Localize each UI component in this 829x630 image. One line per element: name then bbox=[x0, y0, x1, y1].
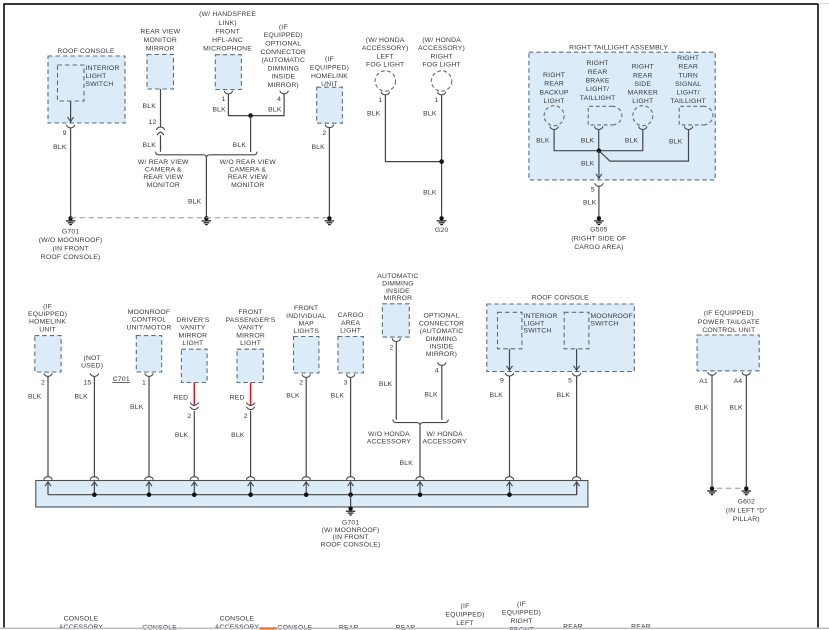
svg-text:REAR: REAR bbox=[588, 69, 608, 76]
svg-text:LINK): LINK) bbox=[218, 20, 236, 27]
svg-text:OPTIONAL: OPTIONAL bbox=[265, 41, 301, 48]
optional connector (middle) label bbox=[419, 313, 464, 359]
orange highlight mark bbox=[260, 627, 277, 629]
svg-text:BLK: BLK bbox=[188, 198, 202, 205]
svg-text:USED): USED) bbox=[81, 363, 103, 370]
svg-text:2: 2 bbox=[322, 130, 326, 137]
svg-text:(IN FRONT: (IN FRONT bbox=[53, 245, 89, 252]
arrow interior switch at box edge bbox=[507, 366, 513, 370]
svg-text:CONSOLE: CONSOLE bbox=[277, 625, 312, 630]
wire mirror lower bbox=[160, 135, 162, 152]
svg-text:(IF: (IF bbox=[43, 303, 52, 310]
svg-text:HFL-ANC: HFL-ANC bbox=[212, 37, 243, 44]
svg-text:LIGHT: LIGHT bbox=[524, 320, 545, 327]
svg-text:G20: G20 bbox=[435, 227, 448, 234]
svg-text:MIRROR: MIRROR bbox=[384, 295, 413, 302]
svg-text:EQUIPPED): EQUIPPED) bbox=[310, 65, 349, 72]
brace rear view monitor options bbox=[156, 152, 257, 158]
svg-text:AUTOMATIC: AUTOMATIC bbox=[377, 273, 418, 280]
right rear side marker light label bbox=[628, 64, 658, 105]
wire A4 to G602 bbox=[745, 376, 747, 487]
svg-text:BACKUP: BACKUP bbox=[540, 89, 569, 96]
svg-text:BRAKE: BRAKE bbox=[586, 77, 610, 84]
moonroof control unit label bbox=[127, 309, 172, 331]
wire pin 9 to G701 bbox=[70, 128, 72, 216]
label w/ honda accessory bbox=[423, 431, 468, 446]
svg-text:RIGHT: RIGHT bbox=[543, 72, 565, 79]
right rear backup light label bbox=[540, 72, 569, 105]
roof console (w/o moonroof) box bbox=[48, 48, 125, 123]
dashed link between G602 grounds bbox=[717, 487, 742, 489]
svg-text:UNIT/MOTOR: UNIT/MOTOR bbox=[127, 324, 172, 331]
svg-text:DIMMING: DIMMING bbox=[267, 65, 299, 72]
svg-text:(W/ HONDA: (W/ HONDA bbox=[422, 37, 461, 44]
label w/o honda accessory bbox=[367, 431, 412, 446]
svg-text:BLK: BLK bbox=[625, 137, 639, 144]
cut-off label if equipped left bbox=[445, 603, 484, 627]
wire right fog light to G20 bbox=[441, 95, 443, 216]
svg-text:BLK: BLK bbox=[490, 392, 504, 399]
svg-text:2: 2 bbox=[187, 413, 191, 420]
svg-text:1: 1 bbox=[221, 96, 225, 103]
wire auto dimming mirror to brace bbox=[395, 342, 397, 420]
svg-text:12: 12 bbox=[149, 119, 157, 126]
svg-text:DIMMING: DIMMING bbox=[382, 280, 414, 287]
ground G701 (w/ moonroof) bbox=[321, 506, 381, 548]
moonroof control unit box bbox=[136, 336, 161, 372]
svg-text:INDIVIDUAL: INDIVIDUAL bbox=[286, 313, 326, 320]
svg-text:CONNECTOR: CONNECTOR bbox=[261, 49, 306, 56]
ground bus bar bbox=[36, 481, 588, 508]
svg-text:REAR VIEW: REAR VIEW bbox=[143, 174, 183, 181]
right rear side marker bulb bbox=[633, 106, 653, 126]
page bottom edge line bbox=[0, 627, 829, 629]
svg-text:2: 2 bbox=[244, 413, 248, 420]
svg-text:SWITCH: SWITCH bbox=[591, 320, 619, 327]
wire brace to mid ground bbox=[205, 158, 207, 216]
connector backup light bbox=[550, 126, 558, 129]
svg-text:REAR: REAR bbox=[396, 625, 416, 630]
bus entry connector/junction (moonroof switch) bbox=[573, 477, 581, 495]
cut-off label console 2 bbox=[277, 625, 312, 630]
wire driver's vanity to bus bbox=[193, 411, 195, 477]
cut-off label if equipped right bbox=[502, 601, 541, 630]
svg-text:W/O HONDA: W/O HONDA bbox=[368, 431, 410, 438]
bus entry connector/junction (not-used) bbox=[90, 477, 98, 497]
svg-text:1: 1 bbox=[435, 97, 439, 104]
cut-off label console accessory 1 bbox=[59, 616, 104, 630]
svg-text:(AUTOMATIC: (AUTOMATIC bbox=[261, 57, 305, 64]
arrow into roof console box edge bbox=[68, 117, 74, 121]
svg-text:LEFT: LEFT bbox=[456, 620, 473, 627]
svg-text:EQUIPPED): EQUIPPED) bbox=[28, 311, 67, 318]
svg-text:3: 3 bbox=[344, 379, 348, 386]
moonroof switch label bbox=[591, 313, 633, 327]
wire passenger's vanity to bus bbox=[250, 411, 252, 477]
cargo area light label bbox=[338, 312, 364, 334]
svg-text:RIGHT TAILLIGHT ASSEMBLY: RIGHT TAILLIGHT ASSEMBLY bbox=[569, 45, 668, 52]
svg-text:INSIDE: INSIDE bbox=[271, 74, 295, 81]
svg-text:BLK: BLK bbox=[583, 200, 597, 207]
svg-text:FRONT: FRONT bbox=[215, 28, 239, 35]
connector pin 1 left fog light bbox=[381, 92, 389, 95]
connector turn signal light bbox=[684, 126, 692, 129]
in-line connector (passenger's vanity) bbox=[246, 403, 255, 410]
svg-text:(IN FRONT: (IN FRONT bbox=[333, 534, 369, 541]
cut-off label console 1 bbox=[142, 625, 177, 630]
svg-text:CONTROL UNIT: CONTROL UNIT bbox=[702, 327, 755, 334]
wire interior light switch (middle) to pin 9 bbox=[509, 349, 511, 372]
svg-text:MOONROOF: MOONROOF bbox=[591, 313, 633, 320]
wire homelink to ground bbox=[328, 128, 330, 216]
svg-text:(IF: (IF bbox=[517, 601, 526, 608]
connector pin 2 auto dimming mirror bbox=[392, 338, 400, 341]
svg-text:SWITCH: SWITCH bbox=[86, 81, 114, 88]
svg-text:4: 4 bbox=[277, 96, 281, 103]
svg-text:BLK: BLK bbox=[143, 103, 157, 110]
svg-text:CONSOLE: CONSOLE bbox=[64, 616, 99, 623]
homelink unit (top) box bbox=[317, 87, 343, 123]
bus entry connector/junction (driver vanity) bbox=[190, 477, 198, 497]
wire bus to G701 (w/ moonroof) bbox=[350, 495, 352, 507]
wire side marker to junction bbox=[600, 129, 643, 150]
bus entry connector/junction (passenger vanity) bbox=[247, 477, 255, 497]
svg-text:BLK: BLK bbox=[143, 142, 157, 149]
connector pin 1 microphone bbox=[224, 91, 232, 94]
svg-text:MONITOR: MONITOR bbox=[231, 182, 264, 189]
arrow moonroof switch at box edge bbox=[574, 366, 580, 370]
svg-text:REAR: REAR bbox=[339, 625, 359, 630]
svg-text:BLK: BLK bbox=[53, 144, 67, 151]
svg-text:CONTROL: CONTROL bbox=[132, 317, 167, 324]
svg-text:MIRROR: MIRROR bbox=[236, 332, 265, 339]
connector pin 1 right fog light bbox=[438, 92, 446, 95]
svg-text:(IF EQUIPPED): (IF EQUIPPED) bbox=[704, 310, 754, 317]
svg-text:PILLAR): PILLAR) bbox=[733, 516, 760, 523]
svg-text:(RIGHT SIDE OF: (RIGHT SIDE OF bbox=[571, 235, 626, 242]
front HFL-ANC microphone label bbox=[199, 11, 256, 52]
right fog light label bbox=[418, 37, 465, 68]
svg-text:RED: RED bbox=[173, 395, 188, 402]
svg-text:ROOF CONSOLE: ROOF CONSOLE bbox=[57, 48, 114, 55]
svg-text:RED: RED bbox=[230, 395, 245, 402]
homelink unit (middle) box bbox=[35, 336, 61, 372]
cut-off label rear 2 bbox=[396, 625, 416, 630]
svg-text:1: 1 bbox=[378, 97, 382, 104]
svg-text:MARKER: MARKER bbox=[628, 90, 658, 97]
svg-text:(W/ HONDA: (W/ HONDA bbox=[366, 37, 405, 44]
svg-text:CONNECTOR: CONNECTOR bbox=[419, 320, 464, 327]
svg-text:INTERIOR: INTERIOR bbox=[524, 313, 558, 320]
connector pin A4 bbox=[742, 372, 750, 375]
svg-text:A4: A4 bbox=[734, 378, 743, 385]
svg-text:LEFT: LEFT bbox=[376, 53, 393, 60]
roof console (w/ moonroof) box bbox=[487, 295, 635, 372]
svg-text:REAR: REAR bbox=[633, 72, 653, 79]
svg-text:CAMERA &: CAMERA & bbox=[229, 167, 266, 174]
ground G602 left bbox=[707, 486, 716, 495]
interior light switch box bbox=[58, 65, 85, 101]
svg-text:MONITOR: MONITOR bbox=[147, 182, 180, 189]
svg-text:FOG LIGHT: FOG LIGHT bbox=[366, 61, 404, 68]
ground G701 (w/o moonroof) bbox=[39, 216, 103, 261]
wire junction down to brace bbox=[250, 116, 252, 152]
svg-text:BLK: BLK bbox=[400, 460, 414, 467]
wire moonroof control to bus bbox=[148, 377, 150, 477]
svg-text:MIRROR: MIRROR bbox=[146, 45, 175, 52]
svg-text:5: 5 bbox=[568, 378, 572, 385]
svg-text:LIGHT: LIGHT bbox=[240, 340, 261, 347]
svg-text:ACCESSORY: ACCESSORY bbox=[423, 439, 468, 446]
svg-text:REAR: REAR bbox=[544, 81, 564, 88]
connector pin 4 optional (middle) bbox=[438, 362, 446, 365]
connector pin 2 map lights bbox=[302, 374, 310, 377]
svg-text:MONITOR: MONITOR bbox=[144, 37, 177, 44]
svg-text:UNIT: UNIT bbox=[39, 326, 56, 333]
svg-text:MOONROOF: MOONROOF bbox=[128, 309, 170, 316]
svg-text:BLK: BLK bbox=[233, 142, 247, 149]
wire homelink middle to bus bbox=[47, 377, 49, 477]
svg-text:SWITCH: SWITCH bbox=[524, 328, 552, 335]
svg-text:CAMERA &: CAMERA & bbox=[145, 167, 182, 174]
connector pin 4 optional connector bbox=[280, 91, 288, 94]
svg-text:AREA: AREA bbox=[341, 320, 361, 327]
connector pin 2 homelink bbox=[325, 125, 333, 128]
svg-text:2: 2 bbox=[299, 379, 303, 386]
right fog light bulb bbox=[431, 71, 451, 91]
wire pin 5 to G505 bbox=[598, 187, 600, 216]
svg-text:ROOF CONSOLE): ROOF CONSOLE) bbox=[41, 254, 101, 261]
optional connector (top) label bbox=[261, 24, 306, 89]
not used label bbox=[81, 355, 103, 370]
svg-text:LIGHT: LIGHT bbox=[544, 98, 565, 105]
svg-text:RIGHT: RIGHT bbox=[587, 60, 609, 67]
arrow out of taillight assembly bbox=[596, 174, 602, 178]
svg-text:REAR: REAR bbox=[678, 64, 698, 71]
left fog light bulb bbox=[375, 71, 395, 91]
svg-text:LIGHT: LIGHT bbox=[340, 328, 361, 335]
front passenger's vanity mirror light box bbox=[237, 349, 263, 382]
left fog light label bbox=[362, 37, 409, 68]
wire cargo light to bus bbox=[350, 378, 352, 477]
svg-text:LIGHT: LIGHT bbox=[182, 340, 203, 347]
wire RED driver's vanity bbox=[193, 383, 195, 405]
connector pin 1 moonroof control bbox=[145, 373, 153, 376]
svg-text:W/O REAR VIEW: W/O REAR VIEW bbox=[220, 159, 277, 166]
connector pin 9 roof console bbox=[67, 125, 75, 128]
svg-text:EQUIPPED): EQUIPPED) bbox=[445, 611, 484, 618]
connector C701 label bbox=[112, 376, 130, 383]
svg-text:BLK: BLK bbox=[175, 432, 189, 439]
interior light switch label bbox=[86, 65, 120, 88]
svg-text:LIGHT: LIGHT bbox=[632, 98, 653, 105]
ground (rear view monitor) bbox=[202, 216, 211, 225]
wire left fog light to junction bbox=[385, 95, 440, 161]
ground G602 bbox=[726, 486, 768, 523]
wire interior light switch to pin 9 bbox=[70, 101, 72, 123]
svg-text:TURN: TURN bbox=[678, 72, 698, 79]
svg-text:OPTIONAL: OPTIONAL bbox=[424, 313, 460, 320]
svg-text:VANITY: VANITY bbox=[238, 325, 264, 332]
moonroof switch box bbox=[564, 312, 589, 349]
svg-text:RIGHT: RIGHT bbox=[677, 55, 699, 62]
svg-text:INSIDE: INSIDE bbox=[386, 288, 410, 295]
svg-text:DRIVER'S: DRIVER'S bbox=[176, 317, 209, 324]
wire A1 to G602 bbox=[711, 376, 713, 487]
svg-text:15: 15 bbox=[83, 379, 91, 386]
svg-text:BLK: BLK bbox=[729, 405, 743, 412]
cargo area light box bbox=[338, 337, 363, 374]
svg-text:BLK: BLK bbox=[379, 381, 393, 388]
connector pin 3 cargo light bbox=[347, 374, 355, 377]
cut-off label rear 3 bbox=[563, 624, 583, 630]
bus internal ground wire bbox=[48, 482, 577, 495]
svg-text:TAILLIGHT: TAILLIGHT bbox=[580, 95, 616, 102]
svg-text:BLK: BLK bbox=[581, 137, 595, 144]
svg-text:(W/ MOONROOF): (W/ MOONROOF) bbox=[322, 527, 380, 534]
svg-text:BLK: BLK bbox=[286, 392, 300, 399]
wire mirror pin 12 upper bbox=[160, 89, 162, 128]
ground G505 bbox=[571, 216, 626, 251]
wire interior switch middle to bus bbox=[509, 376, 511, 477]
svg-text:C701: C701 bbox=[113, 376, 130, 383]
svg-text:(AUTOMATIC: (AUTOMATIC bbox=[420, 328, 464, 335]
label w/ rear view camera bbox=[138, 159, 189, 189]
bus entry connector/junction (cargo light) bbox=[347, 477, 355, 497]
svg-text:2: 2 bbox=[389, 345, 393, 352]
connector side marker light bbox=[639, 126, 647, 129]
svg-text:EQUIPPED): EQUIPPED) bbox=[502, 610, 541, 617]
wire taillight junction to pin 5 bbox=[598, 151, 600, 180]
interior light switch label (middle) bbox=[524, 313, 558, 335]
svg-text:(IN LEFT “D”: (IN LEFT “D” bbox=[726, 507, 768, 514]
svg-text:CARGO: CARGO bbox=[338, 312, 364, 319]
cut-off label console accessory 2 bbox=[215, 616, 260, 630]
svg-text:SIDE: SIDE bbox=[634, 81, 651, 88]
right taillight assembly box bbox=[529, 45, 715, 180]
svg-text:FOG LIGHT: FOG LIGHT bbox=[422, 61, 460, 68]
svg-text:BLK: BLK bbox=[581, 161, 595, 168]
svg-text:TAILLIGHT: TAILLIGHT bbox=[670, 98, 706, 105]
front individual map lights label bbox=[286, 305, 326, 335]
connector brake light bbox=[595, 126, 603, 129]
svg-text:RIGHT: RIGHT bbox=[431, 53, 453, 60]
wire microphone to junction bbox=[228, 94, 249, 115]
svg-text:LIGHTS: LIGHTS bbox=[293, 328, 319, 335]
in-line connector (driver's vanity) bbox=[190, 403, 199, 410]
svg-text:MIRROR: MIRROR bbox=[179, 332, 208, 339]
svg-text:G701: G701 bbox=[62, 228, 79, 235]
front individual map lights box bbox=[294, 337, 319, 374]
junction taillight grounds bbox=[597, 148, 602, 153]
svg-text:MAP: MAP bbox=[299, 321, 315, 328]
connector pin 5 (moonroof switch) bbox=[573, 373, 581, 376]
svg-text:FRONT: FRONT bbox=[294, 305, 318, 312]
bus entry connector/junction (homelink) bbox=[44, 477, 52, 495]
svg-text:HOMELINK: HOMELINK bbox=[311, 73, 348, 80]
svg-text:LIGHT: LIGHT bbox=[86, 73, 107, 80]
dashed ground link line G701 bbox=[71, 217, 330, 219]
svg-text:BLK: BLK bbox=[130, 404, 144, 411]
rear view monitor mirror box bbox=[147, 55, 174, 90]
svg-text:ACCESSORY): ACCESSORY) bbox=[418, 45, 465, 52]
svg-text:9: 9 bbox=[500, 378, 504, 385]
svg-text:(IF: (IF bbox=[279, 24, 288, 31]
svg-text:(W/ HANDSFREE: (W/ HANDSFREE bbox=[199, 11, 256, 18]
svg-text:BLK: BLK bbox=[695, 405, 709, 412]
junction microphone/optional-connector bbox=[248, 113, 253, 118]
svg-text:ROOF CONSOLE): ROOF CONSOLE) bbox=[321, 542, 381, 549]
driver's vanity mirror light box bbox=[181, 349, 207, 382]
connector pin 5 taillight bbox=[595, 183, 603, 186]
ground G20 bbox=[435, 216, 448, 234]
power tailgate control unit box bbox=[697, 335, 759, 371]
svg-text:BLK: BLK bbox=[536, 137, 550, 144]
svg-text:POWER TAILGATE: POWER TAILGATE bbox=[698, 319, 760, 326]
svg-text:BLK: BLK bbox=[423, 190, 437, 197]
junction fog lights bbox=[439, 159, 444, 164]
wire not-used to bus bbox=[93, 377, 95, 477]
svg-text:LIGHT/: LIGHT/ bbox=[677, 90, 700, 97]
page edge line top right bbox=[818, 3, 829, 5]
svg-text:EQUIPPED): EQUIPPED) bbox=[264, 32, 303, 39]
svg-text:CONSOLE: CONSOLE bbox=[220, 616, 255, 623]
svg-text:(NOT: (NOT bbox=[83, 355, 100, 362]
svg-text:LIGHT/: LIGHT/ bbox=[586, 86, 609, 93]
svg-text:MIRROR): MIRROR) bbox=[426, 351, 457, 358]
homelink unit (middle) label bbox=[28, 303, 67, 333]
svg-text:BLK: BLK bbox=[423, 111, 437, 118]
interior light switch box (middle) bbox=[498, 312, 522, 349]
svg-text:9: 9 bbox=[63, 130, 67, 137]
svg-text:(IF: (IF bbox=[461, 603, 470, 610]
right rear turn signal bulb bbox=[679, 106, 713, 125]
connector pin A1 bbox=[708, 372, 716, 375]
wire moonroof switch to pin 5 bbox=[576, 349, 578, 372]
connector pin 9 (middle) bbox=[505, 373, 513, 376]
svg-text:CONSOLE: CONSOLE bbox=[142, 625, 177, 630]
wire RED passenger's vanity bbox=[250, 383, 252, 405]
svg-text:PASSENGER'S: PASSENGER'S bbox=[226, 317, 276, 324]
svg-text:(IF: (IF bbox=[325, 56, 334, 63]
svg-text:BLK: BLK bbox=[557, 392, 571, 399]
bus entry connector/junction (moonroof control) bbox=[145, 477, 153, 497]
ground (homelink unit) bbox=[325, 216, 334, 225]
svg-text:HOMELINK: HOMELINK bbox=[29, 319, 66, 326]
svg-text:G505: G505 bbox=[590, 227, 607, 234]
rear view monitor mirror label bbox=[140, 28, 180, 52]
svg-text:W/ REAR VIEW: W/ REAR VIEW bbox=[138, 159, 189, 166]
right rear brake light label bbox=[580, 60, 616, 102]
bus entry connector/junction (map lights) bbox=[302, 477, 310, 497]
svg-text:G602: G602 bbox=[738, 499, 755, 506]
svg-text:REAR VIEW: REAR VIEW bbox=[228, 174, 268, 181]
svg-text:G701: G701 bbox=[342, 519, 359, 526]
svg-text:DIMMING: DIMMING bbox=[426, 336, 458, 343]
svg-text:BLK: BLK bbox=[28, 394, 42, 401]
cut-off label rear 1 bbox=[339, 625, 359, 630]
svg-text:VANITY: VANITY bbox=[180, 325, 206, 332]
svg-text:RIGHT: RIGHT bbox=[510, 618, 532, 625]
svg-text:ACCESSORY: ACCESSORY bbox=[367, 439, 412, 446]
svg-text:ROOF CONSOLE: ROOF CONSOLE bbox=[532, 295, 589, 302]
svg-text:INTERIOR: INTERIOR bbox=[86, 65, 120, 72]
svg-text:SIGNAL: SIGNAL bbox=[675, 81, 701, 88]
wire optional connector to junction bbox=[252, 94, 285, 115]
wire backup light to junction bbox=[554, 129, 598, 150]
brace honda accessory options bbox=[393, 419, 448, 425]
power tailgate control unit label bbox=[698, 310, 760, 334]
